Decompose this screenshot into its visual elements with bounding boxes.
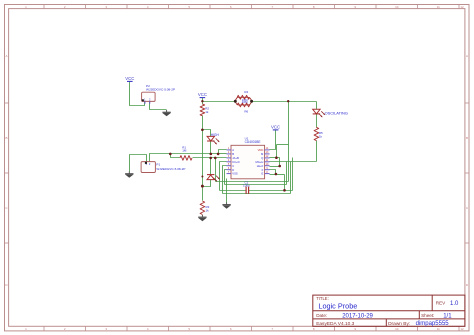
resistor R4/R6 lead bulges [235, 97, 251, 105]
svg-text:12: 12 [460, 5, 464, 9]
wire rail y193.4 [223, 193, 291, 195]
ground G3 (R3) [201, 215, 203, 217]
svg-text:1k: 1k [206, 208, 210, 212]
svg-text:1.0: 1.0 [450, 301, 459, 307]
svg-text:EasyEDA V4.10.3: EasyEDA V4.10.3 [316, 321, 354, 327]
wire pin12 stub link [270, 157, 280, 159]
wire x292.9 up [292, 158, 294, 191]
svg-text:LE+F: LE+F [257, 164, 264, 168]
resistor R5 [314, 127, 319, 140]
wire LED D3 bottom [203, 180, 211, 187]
svg-text:WJ2EDGVC-5.08-2P: WJ2EDGVC-5.08-2P [156, 167, 185, 171]
svg-text:11: 11 [437, 5, 440, 9]
svg-text:VCC: VCC [125, 76, 134, 81]
svg-text:B: B [5, 136, 7, 140]
wire rail y181.8 [216, 181, 289, 183]
wire P2 pin2 to ground [150, 102, 167, 110]
resistor R6 [237, 103, 250, 107]
svg-text:C: C [232, 164, 234, 168]
svg-text:OSCILATING: OSCILATING [325, 110, 348, 115]
svg-text:100n: 100n [243, 184, 250, 188]
svg-text:1/1: 1/1 [443, 313, 452, 319]
wire pin5 left elbow [223, 166, 227, 194]
wire VCC2 stem [202, 98, 204, 102]
node VCC2 junction [201, 100, 203, 102]
svg-text:A: A [5, 54, 7, 58]
wire VSS to ground [226, 179, 228, 203]
node R4/R6 right [250, 100, 253, 103]
title block frame [313, 295, 465, 326]
svg-text:Sheet:: Sheet: [421, 313, 434, 318]
svg-text:A: A [466, 54, 468, 58]
svg-text:JA+B: JA+B [232, 156, 239, 160]
svg-text:KC+D: KC+D [232, 160, 239, 164]
connector P1 box [141, 162, 155, 173]
svg-text:1k: 1k [319, 134, 323, 138]
svg-text:MG+H: MG+H [255, 160, 263, 164]
svg-text:Logic Probe: Logic Probe [318, 302, 357, 311]
svg-text:Q: Q [261, 156, 263, 160]
resistor R4 [237, 95, 250, 99]
svg-text:TITLE:: TITLE: [316, 296, 329, 301]
wire R5 bottom [316, 141, 318, 162]
node J2 [201, 129, 204, 132]
wire C1 rail right [249, 190, 293, 192]
wire LED D2 bottom to net1 [210, 142, 212, 154]
wire pin9 elbow [270, 170, 276, 175]
frame tick marks [43, 5, 45, 9]
svg-text:P1: P1 [156, 163, 160, 167]
wire C1 rail left [220, 190, 247, 192]
led D4 OSC [313, 109, 320, 114]
svg-text:B: B [232, 152, 234, 156]
wire VCC1 to P2 pin1 [130, 82, 145, 106]
node pin10 [278, 165, 281, 168]
wire R2 bottom to node J2 [202, 116, 204, 130]
wire net1 probe input [150, 154, 219, 162]
ground G4 (VSS) [226, 202, 228, 204]
wire x276.4 down to pin12 node [276, 145, 278, 158]
op-amp U1 body [231, 145, 265, 179]
connector P1 pin1 mark [145, 162, 147, 164]
wire VCC2 to R4/R6 left node [203, 101, 236, 103]
led D3 [207, 174, 214, 176]
wire OSC LED to R5 [316, 115, 318, 128]
wire C1 node up x284.5 [284, 175, 286, 191]
wire J2 to LED D2 top [203, 130, 211, 137]
wire x290.9 up [290, 162, 292, 194]
wire ground branch P1 pin1 [130, 155, 147, 172]
wire pin4 left elbow [220, 162, 227, 191]
svg-text:HIGH: HIGH [211, 133, 220, 137]
node net2 down [214, 157, 217, 160]
wire Q output long [270, 161, 317, 163]
wire OSC LED top [316, 102, 318, 110]
node R4/R6 left [234, 100, 237, 103]
svg-text:Drawn By:: Drawn By: [388, 321, 410, 327]
svg-text:12: 12 [460, 327, 464, 331]
wire right vertical x288.2 [288, 102, 290, 182]
wire net1 to pin B [219, 153, 227, 155]
node net1 LED [210, 153, 213, 156]
led D2 [207, 136, 214, 141]
connector P2 box [142, 92, 156, 101]
capacitor C1 [245, 187, 247, 194]
wire pin10 link [270, 166, 280, 168]
svg-text:VSS: VSS [232, 172, 238, 176]
svg-text:REV: REV [436, 301, 446, 306]
wire x279.7 tie [279, 158, 281, 167]
wire x286.0 up [286, 162, 288, 185]
ground G1 (P2) [166, 110, 168, 112]
svg-text:dimpap5555: dimpap5555 [416, 321, 450, 327]
svg-text:2017-10-29: 2017-10-29 [342, 313, 373, 319]
wire net1 to pin A [219, 150, 227, 154]
wire VCC3 to VDD pin [270, 130, 276, 150]
node OSC branch [287, 100, 289, 102]
connector P2 pin stubs [144, 101, 146, 103]
wire net2 R1 branch [171, 154, 180, 158]
wire column to R3 [202, 187, 204, 201]
node D3 bottom [201, 185, 204, 188]
connector P2 pin1 mark [142, 99, 144, 101]
wire F/E tie horizontal [270, 174, 285, 176]
resistor R3 [200, 201, 205, 215]
wire pin3 node down [215, 158, 217, 182]
node F/E [275, 173, 278, 176]
wire pin6 left elbow [225, 170, 227, 185]
svg-text:10: 10 [395, 5, 399, 9]
wire R4/R6 right node to OSC branch [252, 101, 317, 103]
node C1 right [283, 189, 286, 192]
svg-text:VDD: VDD [258, 148, 264, 152]
svg-text:R6: R6 [244, 110, 248, 114]
svg-text:10M: 10M [242, 100, 248, 104]
wire LED D3 top column [210, 158, 212, 175]
wire main column J2 to LED D3 join [202, 130, 204, 187]
U1 pin stubs [227, 149, 232, 151]
svg-text:E: E [262, 172, 264, 176]
svg-text:1k: 1k [205, 110, 209, 114]
svg-text:11: 11 [437, 327, 440, 331]
wire jog y144.6 [277, 144, 289, 146]
svg-text:VCC: VCC [271, 124, 280, 129]
node net1 P1 [169, 153, 172, 156]
svg-text:Date:: Date: [316, 313, 327, 318]
wire net2 R1 to pin 3 [193, 157, 227, 159]
wire R3 to ground [202, 214, 204, 216]
wire rail y184.7 [225, 184, 287, 186]
node net1 pinAB [217, 153, 220, 156]
svg-text:B: B [466, 136, 468, 140]
svg-text:D: D [232, 168, 234, 172]
svg-text:10: 10 [395, 327, 399, 331]
resistor R2 [200, 104, 205, 116]
node column mark [201, 176, 203, 178]
svg-text:A: A [232, 148, 234, 152]
svg-text:1M: 1M [182, 149, 187, 153]
node net2 LED [209, 157, 212, 160]
node pin12 [275, 156, 278, 159]
svg-text:WJ2EDGVC-5.08-2P: WJ2EDGVC-5.08-2P [146, 87, 175, 91]
svg-text:R4: R4 [244, 90, 248, 94]
svg-text:VCC: VCC [198, 92, 207, 97]
svg-text:CD4001BE: CD4001BE [245, 140, 261, 144]
wire R2 top [202, 102, 204, 105]
resistor R1 [180, 156, 192, 161]
ground G2 (P1) [128, 171, 130, 173]
